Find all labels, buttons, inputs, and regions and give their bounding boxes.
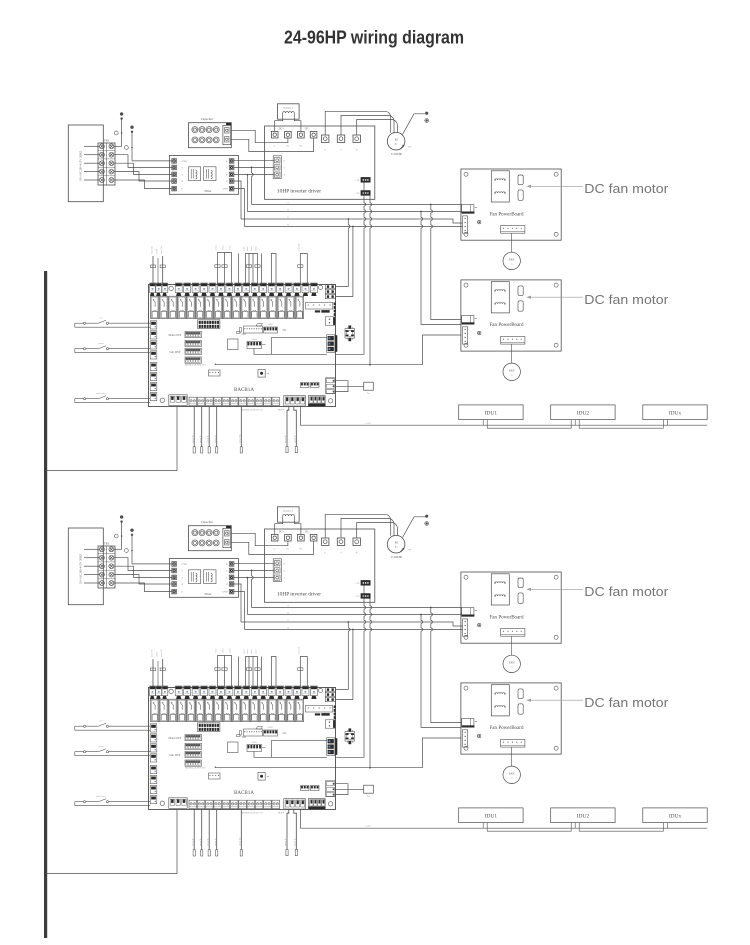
svg-text:A-BLK: A-BLK <box>267 726 273 729</box>
fan powerboard 2 connector CNF1 (top) <box>518 286 523 296</box>
reactor lead left (top) <box>275 116 283 131</box>
svg-text:sw1: sw1 <box>99 318 102 320</box>
board right edge 3-pin connector (top) <box>325 378 335 394</box>
inverter output terminal U (bottom) <box>322 538 329 545</box>
board top-left connector 1 (top) <box>150 283 156 293</box>
svg-text:sensor: sensor <box>223 648 225 653</box>
compressor OT sensor arrow (top) <box>401 145 405 149</box>
model select connector (bottom) <box>306 705 333 712</box>
wire main board to fan powerboard 2 lower connector (top) <box>335 335 461 365</box>
board right edge connector stack 1 (top) <box>325 317 334 325</box>
inverter connector CN2 (bottom) <box>361 594 370 599</box>
wire filter S to inverter (tap to bus S) (top) <box>234 166 274 168</box>
svg-text:A-BLK: A-BLK <box>267 323 273 326</box>
board capacitor C1 (bottom) <box>240 731 242 736</box>
board relay 2 (top) <box>160 296 168 319</box>
board top connector 15 (top) <box>268 283 275 293</box>
board relay 10 (bottom) <box>232 699 240 722</box>
DIP switch block 3 (bottom) <box>185 751 202 757</box>
terminal block TB1 (bottom) <box>98 546 115 588</box>
IDU1 drop wire (top) <box>482 420 484 426</box>
svg-text:IDU1: IDU1 <box>485 813 498 819</box>
board top-left connector 3 (bottom) <box>162 686 168 696</box>
board left edge connector 3 (bottom) <box>150 744 157 752</box>
board relay 13 (top) <box>259 296 267 319</box>
external sensor box (top) <box>364 382 374 390</box>
svg-text:IDUx: IDUx <box>669 813 682 819</box>
svg-text:CN2: CN2 <box>355 193 359 195</box>
wire main board to fan powerboard 2 lower connector (bottom) <box>335 738 461 768</box>
discharge sensor (top) <box>300 254 307 285</box>
fan motor 1 (top) <box>511 233 513 252</box>
board relay 14 (bottom) <box>268 699 276 722</box>
reactor lead right (top) <box>294 116 301 131</box>
board top connector 17 (top) <box>285 283 292 293</box>
svg-text:FAN: FAN <box>509 661 514 664</box>
svg-text:10HP inverter driver: 10HP inverter driver <box>277 592 321 598</box>
inverter input pin T (top) <box>274 172 280 177</box>
wire U to compressor (bottom) <box>325 514 391 538</box>
wire TB1 S to filter (top) <box>114 163 172 174</box>
svg-text:Fan PowerBoard: Fan PowerBoard <box>490 211 524 217</box>
board relay 11 (top) <box>241 296 249 319</box>
board top connector 5 (top) <box>184 283 191 293</box>
external sensor box (bottom) <box>364 785 374 793</box>
bus wire T (top) <box>241 219 463 223</box>
board relay 15 (bottom) <box>277 699 285 722</box>
wire board mid connector to comm stack (top) <box>254 348 327 354</box>
board mid header CN-A (bottom) <box>244 729 263 736</box>
board bottom connector 3 (top) <box>206 397 214 406</box>
board top connector 7 (bottom) <box>201 686 208 696</box>
svg-text:N: N <box>287 208 289 211</box>
DIP switch block 3 (top) <box>185 348 202 354</box>
svg-text:N: N <box>287 611 289 614</box>
board right edge pin strip (bottom) <box>334 706 336 708</box>
svg-text:MODULAR PCB V2.0: MODULAR PCB V2.0 <box>185 766 206 769</box>
inverter DC terminal N2 (top) <box>298 131 305 138</box>
board relay 6 (top) <box>196 296 204 319</box>
svg-text:sensor: sensor <box>244 246 246 251</box>
fan motor 1 (bottom) <box>511 636 513 655</box>
filter right pin S (bottom) <box>229 568 234 573</box>
svg-text:Reactor_1: Reactor_1 <box>283 510 294 513</box>
svg-text:DC fan motor: DC fan motor <box>584 695 669 710</box>
board top connector 14 (top) <box>260 283 267 293</box>
board relay 2 (bottom) <box>160 699 168 722</box>
svg-text:sensor Tc: sensor Tc <box>285 838 287 846</box>
board top connector 20 (bottom) <box>310 686 317 696</box>
fan powerboard 1 connector CNF2 (top) <box>518 190 523 200</box>
comm jumper IDU2-IDUx (bottom) <box>579 823 663 832</box>
switch input mode select (top) <box>75 398 84 400</box>
board mid connector CN-B (top) <box>264 327 278 333</box>
board left edge connector 7 (top) <box>150 383 157 391</box>
transformer T1 (top) <box>345 329 355 339</box>
fan powerboard 1 IPM module (bottom) <box>491 574 509 605</box>
board relay 9 (top) <box>223 296 231 319</box>
board bottom connector 5 (bottom) <box>222 800 230 809</box>
inverter connector CN2 (top) <box>361 191 370 196</box>
inverter output terminal W (top) <box>353 135 360 142</box>
filter inductor 1 (bottom) <box>189 570 201 584</box>
wire comm bus to indoor units (bottom) <box>301 810 708 829</box>
wire earth post to filter GND (top) <box>132 160 172 162</box>
switch input mode select (bottom) <box>75 801 84 803</box>
main control board BACB1A (top) <box>149 285 336 407</box>
wire filter S to inverter (tap to bus S) (bottom) <box>234 569 274 571</box>
filter left pin GND (bottom) <box>172 562 177 567</box>
bus wire N2 (top) <box>245 226 463 228</box>
svg-text:IDU1: IDU1 <box>485 410 498 416</box>
board relay 17 (bottom) <box>295 699 303 722</box>
LP terminal post (bottom) <box>426 522 428 524</box>
DIP switch block 4 (top) <box>185 357 202 363</box>
DIP switch block 4 (bottom) <box>185 760 202 766</box>
board relay 1 (top) <box>151 296 159 319</box>
svg-text:sensor Te: sensor Te <box>294 838 296 846</box>
board right edge pin strip (top) <box>334 303 336 305</box>
wire filter R to inverter (top) <box>234 159 274 161</box>
HP terminal post (bottom) <box>425 515 428 518</box>
board relay 11 (bottom) <box>241 699 249 722</box>
inverter DC terminal N1 (top) <box>285 131 292 138</box>
filter left pin S (bottom) <box>172 568 177 573</box>
earth post 1 above TB1 (bottom) <box>121 521 123 549</box>
capacitor cell 5 (top) <box>192 137 198 143</box>
comm jumper IDU2-IDUx (top) <box>579 420 663 429</box>
board top connector 7 (top) <box>201 283 208 293</box>
board top connector 13 (top) <box>251 283 258 293</box>
wire filter GND down to bus 4 (bottom) <box>234 592 245 630</box>
board connector 4-pin D2 (top) <box>311 383 320 388</box>
board connector power in N (top) <box>325 289 335 293</box>
svg-text:sensor Th1: sensor Th1 <box>152 246 154 254</box>
board buzzer (top) <box>258 370 265 378</box>
inverter connector CN1 (top) <box>361 177 370 182</box>
svg-text:sensor: sensor <box>256 246 258 251</box>
fan powerboard 2 connector CNF2 (top) <box>518 301 523 311</box>
board top connector 4 (bottom) <box>175 686 182 696</box>
EMI filter box (bottom) <box>169 559 238 598</box>
wire mains phase 3 (top) <box>84 162 99 164</box>
sensor group B (bottom) <box>246 657 258 688</box>
board bottom connector 5 (top) <box>222 397 230 406</box>
IDU2 drop wire (top) <box>574 420 576 426</box>
board top connector 11 (bottom) <box>234 686 241 696</box>
svg-text:FAN: FAN <box>509 258 514 261</box>
board 16-pin header (bottom) <box>198 723 220 732</box>
inverter output terminal V (bottom) <box>337 538 344 545</box>
switch input sw1 (bottom) <box>75 725 84 727</box>
board relay 12 (top) <box>250 296 258 319</box>
TB1 terminal row 3 (bottom) <box>98 569 115 571</box>
earth post 2 above TB1 (bottom) <box>131 535 133 564</box>
fan powerboard 2 signal connector (bottom) <box>463 730 468 747</box>
board relay 5 (top) <box>187 296 195 319</box>
svg-text:DES-P: DES-P <box>278 409 285 411</box>
fan powerboard 2 IPM module (top) <box>491 282 509 313</box>
board left edge connector 8 (top) <box>150 393 157 401</box>
capacitor cell 1 (bottom) <box>192 530 198 536</box>
filter left pin T (bottom) <box>172 575 177 580</box>
switch input remote (bottom) <box>75 751 84 753</box>
wire mains phase 5 (top) <box>84 179 99 181</box>
wire board mid connector to comm stack (bottom) <box>254 751 327 757</box>
svg-text:sensor Tset: sensor Tset <box>239 837 241 846</box>
board relay 13 (bottom) <box>259 699 267 722</box>
wire mains phase 2 (top) <box>84 154 99 156</box>
wire filter R to inverter (bottom) <box>234 562 274 564</box>
wire capacitor + to DC bus (bottom) <box>231 533 288 545</box>
board left edge connector 1 (bottom) <box>150 724 157 732</box>
wire DIP area to fan board feed (top) <box>215 363 335 364</box>
fan powerboard 1 signal connector (top) <box>463 216 468 233</box>
comm jumper IDU1-IDU2 (top) <box>487 420 571 429</box>
board top connector 13 (bottom) <box>251 686 258 696</box>
board top connector 9 (bottom) <box>217 686 224 696</box>
board left edge connector 6 (top) <box>150 373 157 381</box>
sensor group A (top) <box>218 253 232 285</box>
board relay 4 (bottom) <box>178 699 186 722</box>
board bottom connector 2 (top) <box>197 397 205 406</box>
svg-text:sensor Ts: sensor Ts <box>207 838 209 846</box>
board connector 4-pin D1 (bottom) <box>301 786 310 791</box>
sensor group A (bottom) <box>218 656 232 688</box>
fan powerboard 2 LED (top) <box>478 331 481 334</box>
inverter input pin R (bottom) <box>274 561 280 566</box>
capacitor cell 2 (top) <box>199 127 205 133</box>
fan powerboard 1 connector CNF1 (bottom) <box>518 578 523 588</box>
board left edge connector 6 (bottom) <box>150 776 157 784</box>
capacitor cell 8 (top) <box>213 137 219 143</box>
wire bus S down to fan powerboard 2 (top) <box>430 204 432 206</box>
svg-text:~: ~ <box>511 262 513 266</box>
thermistor sensor TH2 (top) <box>162 256 164 283</box>
svg-text:BACB1A: BACB1A <box>234 790 254 796</box>
power supply box (top) (3N~ AC 380-415V) <box>68 125 103 202</box>
svg-text:remote: remote <box>98 343 104 345</box>
TB1 terminal row 4 (top) <box>98 175 115 177</box>
svg-text:mode select: mode select <box>96 393 106 395</box>
board bottom connector 4 (top) <box>214 397 222 406</box>
svg-text:to IDU: to IDU <box>365 826 371 828</box>
board top connector 18 (top) <box>294 283 301 293</box>
svg-text:N2: N2 <box>300 146 303 148</box>
svg-text:A-BLK: A-BLK <box>251 338 257 341</box>
main control board BACB1A (bottom) <box>149 688 336 810</box>
filter left pin N (bottom) <box>172 582 177 587</box>
bottom sensor 1 (bottom) <box>193 810 195 850</box>
wire capacitor - to DC bus (bottom) <box>231 541 314 554</box>
filter right pin T (top) <box>229 172 234 177</box>
svg-text:24-96HP wiring diagram: 24-96HP wiring diagram <box>284 27 464 48</box>
board relay 15 (top) <box>277 296 285 319</box>
board top connector 11 (top) <box>234 283 241 293</box>
board relay 12 (bottom) <box>250 699 258 722</box>
svg-text:Fan PowerBoard: Fan PowerBoard <box>490 614 524 620</box>
svg-text:Main DSY: Main DSY <box>168 333 182 337</box>
svg-text:~: ~ <box>511 665 513 669</box>
wire capacitor + to DC bus (top) <box>231 130 288 142</box>
inverter DC terminal N2 (bottom) <box>298 534 305 541</box>
svg-text:A-BLK: A-BLK <box>251 741 257 744</box>
board mid connector CN-C (top) <box>247 342 262 349</box>
svg-text:CN1: CN1 <box>355 180 359 182</box>
bottom sensor 4 (top) <box>216 407 218 447</box>
svg-text:sw HP: sw HP <box>157 652 159 657</box>
bottom sensor 6 (top) <box>287 407 289 447</box>
board mounting hole bottom-right (top) <box>328 399 332 403</box>
board relay 9 (bottom) <box>223 699 231 722</box>
board connector power in L (bottom) <box>325 687 335 691</box>
IDU1 drop wire (bottom) <box>482 823 484 829</box>
svg-text:BACB1A: BACB1A <box>234 387 254 393</box>
board top connector 14 (bottom) <box>260 686 267 696</box>
filter right pin S (top) <box>229 165 234 170</box>
board relay 5 (bottom) <box>187 699 195 722</box>
svg-text:3N~/AC380-415V 50HZ: 3N~/AC380-415V 50HZ <box>79 554 83 584</box>
board bottom connector group B (bottom) <box>309 798 326 809</box>
wire board to external sensor box (top) <box>335 381 348 392</box>
board top connector 19 (top) <box>302 283 309 293</box>
sensor group B (top) <box>246 254 258 285</box>
inverter DC terminal C (top) <box>310 131 317 138</box>
svg-text:sensor Th2: sensor Th2 <box>161 246 163 254</box>
svg-text:N: N <box>287 223 289 226</box>
board mounting hole bottom-left (bottom) <box>160 801 164 805</box>
board relay 16 (top) <box>286 296 294 319</box>
pressure switch wire (bottom) <box>157 661 159 686</box>
svg-text:sensor Te: sensor Te <box>294 435 296 443</box>
board left edge connector 3 (top) <box>150 341 157 349</box>
svg-text:sensor Ts: sensor Ts <box>200 435 202 443</box>
svg-text:MODULAR PCB V2.0: MODULAR PCB V2.0 <box>185 363 206 366</box>
capacitor bank (bottom) <box>188 526 231 551</box>
svg-text:GND: GND <box>182 160 187 163</box>
svg-text:sensor: sensor <box>247 649 249 654</box>
inverter output terminal U (top) <box>322 135 329 142</box>
wire DIP area to fan board feed (bottom) <box>215 766 335 767</box>
board relay 17 (top) <box>295 296 303 319</box>
board bottom connector 2 (bottom) <box>197 800 205 809</box>
board left edge connector 2 (bottom) <box>150 734 157 742</box>
svg-text:sensor Ts: sensor Ts <box>192 838 194 846</box>
board bottom connector group A (top) <box>284 396 306 406</box>
board bottom connector 6 (top) <box>231 397 239 406</box>
fan powerboard 2 connector CNF2 (bottom) <box>518 704 523 714</box>
terminal block TB1 (top) <box>98 143 115 185</box>
bottom sensor 5 (bottom) <box>240 810 242 850</box>
inverter DC terminal C (bottom) <box>310 534 317 541</box>
svg-text:Fan PowerBoard: Fan PowerBoard <box>490 725 524 731</box>
board capacitor C1 (top) <box>240 328 242 333</box>
svg-text:sw1: sw1 <box>99 721 102 723</box>
board top connector 19 (bottom) <box>302 686 309 696</box>
board bottom connector 7 (top) <box>239 397 247 406</box>
bottom sensor 7 (bottom) <box>294 810 297 850</box>
fan powerboard 2 IPM module (bottom) <box>491 685 509 716</box>
fan powerboard 1 LED (bottom) <box>478 623 481 626</box>
svg-text:GND: GND <box>182 563 187 566</box>
wire V to compressor (top) <box>341 115 394 135</box>
svg-text:sensor Ts: sensor Ts <box>215 435 217 443</box>
board top connector 18 (bottom) <box>294 686 301 696</box>
wire filter N down to bus 3 (top) <box>234 181 241 219</box>
switch input sw1 (top) <box>75 322 84 324</box>
fan powerboard 2 (top) <box>461 280 561 351</box>
compressor OT sensor arrow (bottom) <box>401 548 405 552</box>
capacitor cell 3 (bottom) <box>206 530 212 536</box>
DC fan motor label 2 (top) <box>527 296 584 298</box>
DC fan motor label 1 (bottom) <box>527 588 584 590</box>
board relay 3 (top) <box>169 296 177 319</box>
wire comm bus to indoor units (top) <box>301 407 708 426</box>
wire filter T to inverter (tap to bus 2) (top) <box>234 174 274 176</box>
wire board ground to shield bar (bottom) <box>46 810 177 874</box>
wire compressor to HP terminal (bottom) <box>403 517 426 538</box>
wire CN2 to main board comm (top) <box>369 196 371 365</box>
bottom sensor 2 (bottom) <box>201 810 203 850</box>
svg-text:Filter: Filter <box>205 592 213 596</box>
bottom sensor 2 (top) <box>201 407 203 447</box>
DIP switch block 1 (bottom) <box>185 735 202 741</box>
wire capacitor - to DC bus (top) <box>231 138 314 151</box>
TB1 terminal row 1 (bottom) <box>98 553 115 555</box>
board lower connector 4-pin (top) <box>209 370 221 376</box>
wire board to external sensor box (bottom) <box>335 784 348 795</box>
board left edge connector 2 (top) <box>150 331 157 339</box>
wire TB1 T to filter (top) <box>114 172 172 181</box>
svg-text:N: N <box>226 583 228 586</box>
compressor motor COMP (bottom) <box>387 535 405 553</box>
svg-text:M: M <box>395 138 398 142</box>
svg-text:sensor Td: sensor Td <box>299 244 301 251</box>
svg-text:3N~/AC380-415V 50HZ: 3N~/AC380-415V 50HZ <box>79 151 83 181</box>
fan powerboard 2 signal connector (top) <box>463 327 468 344</box>
board mounting hole top-left (bottom) <box>169 689 173 693</box>
board connector comm (bottom) <box>325 697 335 701</box>
svg-text:remote: remote <box>98 746 104 748</box>
bus wire N1 (top) <box>248 211 462 213</box>
svg-text:Capacitor: Capacitor <box>201 117 214 121</box>
bus wire S (top) <box>252 204 462 206</box>
board relay 16 (bottom) <box>286 699 294 722</box>
svg-text:GND: GND <box>222 591 227 594</box>
fan motor 2 (top) <box>511 344 513 363</box>
DIP switch block 2 (top) <box>185 340 202 346</box>
board small part (bottom) <box>237 735 241 737</box>
svg-text:Filter: Filter <box>205 189 213 193</box>
capacitor output connector (bottom) <box>223 528 231 547</box>
wire V to compressor (bottom) <box>341 518 394 538</box>
wire loop to comm stack upper (top) <box>271 338 327 355</box>
board relay 1 (bottom) <box>151 699 159 722</box>
board bottom connector 10 (bottom) <box>264 800 272 809</box>
svg-text:S: S <box>106 155 107 157</box>
board mid connector CN-B (bottom) <box>264 730 278 736</box>
svg-text:sw HP: sw HP <box>157 249 159 254</box>
board jumper small (bottom) <box>256 727 263 730</box>
fan powerboard 2 power connector (bottom) <box>462 719 474 727</box>
reactor L1 (top) <box>278 104 300 119</box>
svg-text:M: M <box>395 541 398 545</box>
board mounting hole top-right (bottom) <box>319 688 323 692</box>
sensor pair C (bottom) <box>271 657 276 688</box>
wire mains phase 4 (bottom) <box>84 574 99 576</box>
capacitor cell 4 (top) <box>213 127 219 133</box>
reactor lead right (bottom) <box>294 519 301 534</box>
